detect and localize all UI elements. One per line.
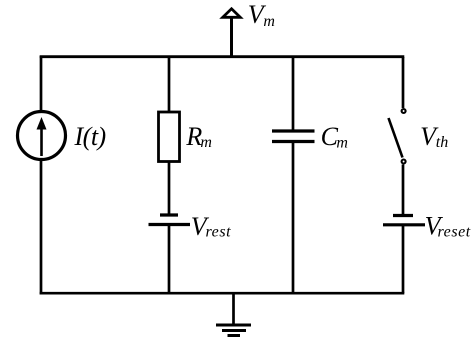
svg-text:th: th	[436, 134, 448, 151]
wire: resistor branch to battery	[168, 160, 171, 214]
switch S1 top contact dot	[402, 109, 406, 113]
battery Vreset long plate	[383, 223, 425, 226]
wire: top rail V_m node	[40, 55, 405, 58]
ground stub wire	[232, 293, 235, 325]
wire: battery Vrest to bottom rail	[168, 225, 171, 294]
wire: switch to battery Vreset	[402, 165, 405, 216]
ground bar 3	[228, 334, 241, 337]
wire: resistor branch top	[168, 57, 171, 113]
current source arrow	[40, 127, 43, 156]
svg-text:m: m	[263, 13, 275, 30]
svg-text:rest: rest	[206, 224, 232, 241]
svg-text:reset: reset	[438, 224, 471, 241]
ground bar 2	[222, 329, 246, 332]
current source I1 circle	[18, 112, 66, 160]
wire: left rail	[40, 56, 43, 295]
switch S1 bottom contact dot	[402, 160, 406, 164]
wire: battery Vreset to bottom rail	[402, 225, 405, 293]
svg-text:m: m	[200, 134, 212, 151]
svg-text:I(t): I(t)	[74, 122, 106, 151]
ground bar 1	[216, 324, 251, 327]
resistor Rm body	[159, 112, 180, 162]
switch S1 lever	[389, 118, 403, 158]
wire: right rail top to switch	[402, 57, 405, 108]
svg-text:m: m	[336, 135, 348, 152]
capacitor Cm top plate	[272, 129, 315, 132]
battery Vreset short plate	[393, 214, 413, 217]
battery Vrest long plate	[149, 223, 191, 226]
wire: capacitor branch top	[292, 57, 295, 131]
capacitor Cm bottom plate	[272, 140, 315, 143]
node Vm arrow head (open triangle)	[223, 9, 241, 17]
wire: capacitor branch bottom	[292, 142, 295, 294]
battery Vrest short plate	[160, 213, 178, 216]
node Vm arrow stem	[230, 17, 233, 58]
wire: bottom rail (ground net)	[40, 292, 405, 295]
